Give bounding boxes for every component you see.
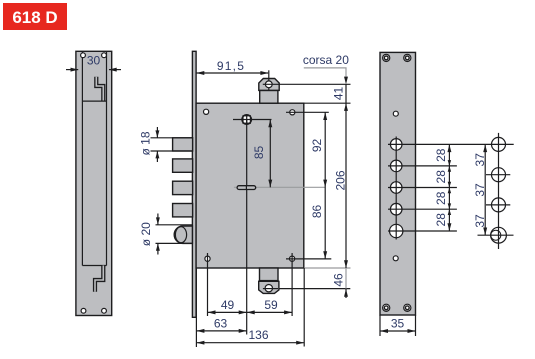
screw bottom-left [81,308,86,313]
screw top-right [102,53,107,58]
top bolt center line vertical [268,70,270,90]
body top edge extension line [304,102,351,104]
step profile top (sheet metal channel) [96,77,103,101]
top deadbolt stem [260,90,278,103]
dimension o20 arrows [157,214,159,225]
svg-text:86: 86 [310,205,324,219]
hole line 4 [388,208,457,210]
svg-text:41: 41 [332,87,346,101]
svg-text:28: 28 [434,148,448,162]
plate hole 5 (cylinder) [390,224,403,237]
inner box bottom line top section [82,100,106,102]
bolt 4 (square bolt) [173,204,193,217]
floating hole pattern circle 3 [492,198,506,212]
plate hole 4 [390,203,402,215]
faceplate front body [380,52,416,315]
dimension 35 [379,315,381,336]
small hole bottom [393,256,398,261]
bolt 3 (square bolt) [173,181,193,194]
hole line 1 [388,143,514,145]
svg-text:136: 136 [248,328,268,342]
svg-text:59: 59 [264,298,278,312]
hole line 2 [388,165,457,167]
rivet top-right + slot line [290,110,295,115]
floating hole pattern circle 2 [492,168,506,182]
svg-text:618 D: 618 D [12,8,57,27]
dimension 91,5 [197,72,269,74]
step profile bottom (sheet metal channel) [95,266,103,292]
corsa 20 leader (gray) [304,68,346,78]
bottom bolt pin line extension [263,288,350,290]
body bottom edge extension line [304,267,350,269]
dimension o20 lines [156,224,193,226]
bottom bolt pin [265,285,272,292]
plate hole 3 [390,182,402,194]
round bolt face ellipse [175,227,186,243]
dimension 49/59 line [208,311,293,313]
keyhole double slot [237,186,256,190]
dimension 85 [269,120,271,188]
top deadbolt head [259,79,279,91]
svg-text:ø 20: ø 20 [139,222,153,246]
svg-text:35: 35 [391,317,405,331]
plate hole 1 [390,139,402,151]
svg-text:63: 63 [214,316,228,330]
vertical center line through plate holes [395,137,397,240]
screw top-left [81,53,86,58]
badge 618 D [3,3,67,30]
svg-text:37: 37 [473,183,487,197]
svg-text:37: 37 [473,214,487,228]
faceplate front bar [192,51,196,317]
svg-text:91,5: 91,5 [217,59,245,73]
round bolt cylinder [174,226,192,243]
svg-text:49: 49 [221,298,235,312]
top bolt pin center line horizontal (41 extension) [263,83,351,85]
svg-text:92: 92 [310,139,324,153]
svg-text:37: 37 [473,153,487,167]
svg-text:28: 28 [434,191,448,205]
dimension 63 line [196,330,246,332]
keyhole center line (gray) [234,186,326,188]
bolt 1 (square bolt) [173,138,193,151]
floating hole pattern circle 4 (cylinder) [491,227,507,243]
svg-text:30: 30 [87,54,101,68]
svg-text:46: 46 [332,273,346,287]
top bolt pin [265,81,272,88]
right outer dimension line 41/206/46 [345,84,347,268]
rivet bottom-left + center line [205,256,210,261]
screw top-right [404,54,411,61]
faceplate inner flange line left [81,52,83,266]
faceplate inner flange line right [106,52,108,266]
extension line body right bottom [303,268,305,347]
inner box line bottom section [82,265,106,267]
extension line body left bottom [195,268,197,347]
screw bottom-left [383,304,390,311]
faceplate side body [76,51,112,315]
rivet top-left [204,109,209,114]
dimension o18 arrows [156,127,158,138]
screw bottom-right [102,308,107,313]
svg-text:85: 85 [252,146,266,160]
floating hole pattern circle 1 [492,137,506,151]
rivet bottom-right + lines [290,256,295,261]
hole line 3 [388,187,457,189]
dimension 136 line [196,342,304,344]
dimension chain 37 line [484,144,486,235]
plate hole 2 [390,160,402,172]
svg-text:ø 18: ø 18 [139,131,153,155]
svg-text:28: 28 [434,170,448,184]
inner dimension line 92/86 [324,112,326,259]
bolt 2 (square bolt) [173,159,193,172]
bottom deadbolt flange [259,281,279,293]
floating circle 1 vertical center line [498,133,500,249]
svg-text:corsa 20: corsa 20 [303,53,349,67]
spindle hole [233,114,272,124]
lock body [196,103,304,268]
small hole top [393,111,398,116]
screw top-left [383,54,390,61]
dimension 30 arrows [66,69,78,71]
dimension o18 lines [151,137,193,139]
bottom deadbolt stem [260,268,279,281]
vertical center line through spindle and keyhole [246,120,248,335]
dimension chain 28 line [448,144,450,231]
svg-text:28: 28 [434,213,448,227]
hole line 5 [388,230,457,232]
screw bottom-right [404,304,411,311]
svg-text:206: 206 [334,170,348,190]
